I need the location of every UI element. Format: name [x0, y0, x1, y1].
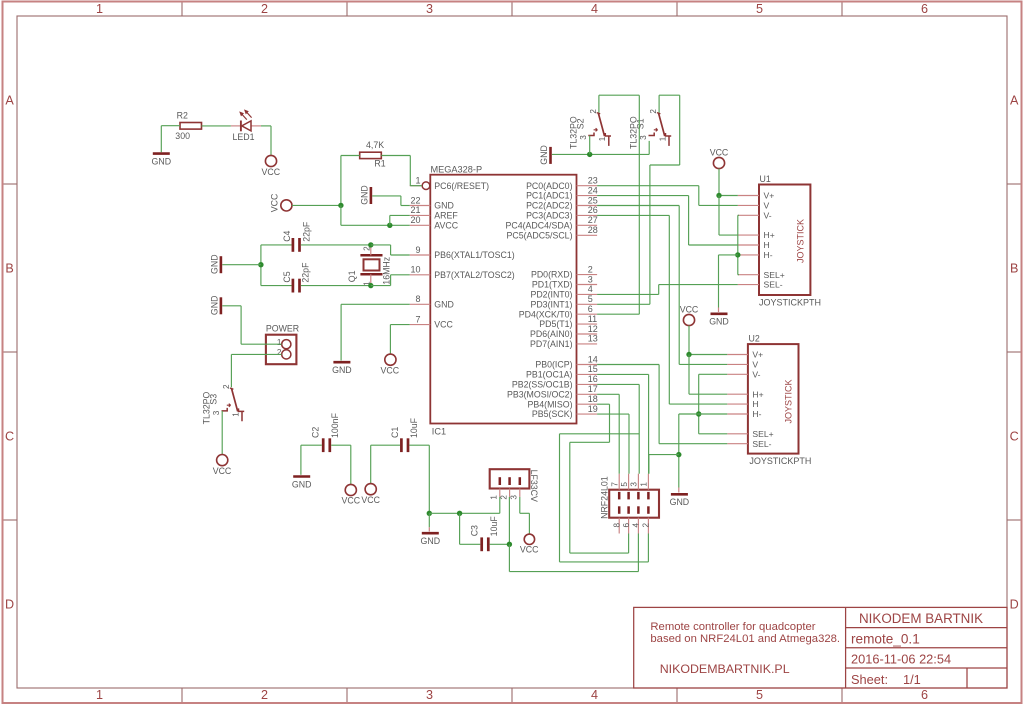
wire R2 left to GND corner [161, 126, 180, 153]
svg-text:PD7(AIN1): PD7(AIN1) [530, 339, 573, 349]
capacitor C2 value 100nF [330, 412, 340, 438]
svg-text:4: 4 [632, 523, 641, 528]
svg-text:S3: S3 [209, 394, 219, 405]
svg-text:B: B [1010, 261, 1018, 275]
svg-text:JOYSTICKPTH: JOYSTICKPTH [749, 456, 811, 466]
NRF pin 5 number [620, 482, 629, 487]
capacitor C1 value 10uF [409, 417, 419, 438]
U2 pin name H+ [752, 389, 763, 399]
U1 pin name V+ [764, 191, 775, 201]
S1 pin 2 label [649, 109, 658, 114]
svg-text:POWER: POWER [266, 324, 299, 334]
svg-text:PB6(XTAL1/TOSC1): PB6(XTAL1/TOSC1) [434, 250, 514, 260]
wire PB1 to NRF pin 1 [597, 374, 649, 473]
U1 pin name SEL- [764, 280, 783, 290]
IC1 pin 11 PD5(T1) [539, 314, 597, 329]
supply VCC for U1 [710, 147, 729, 168]
svg-text:GND: GND [434, 299, 454, 309]
svg-text:4: 4 [588, 284, 593, 294]
IC1 pin 27 PC4(ADC4/SDA) [506, 215, 598, 230]
svg-text:3: 3 [579, 135, 588, 140]
U1 pin name H- [764, 250, 773, 260]
crystal Q1 body [360, 255, 382, 274]
svg-text:13: 13 [588, 334, 598, 344]
LED LED1 [231, 109, 261, 131]
svg-text:2016-11-06 22:54: 2016-11-06 22:54 [851, 652, 951, 667]
svg-text:VCC: VCC [262, 167, 281, 177]
S3 pin 1 label [231, 412, 240, 417]
svg-text:5: 5 [588, 294, 593, 304]
svg-text:22pF: 22pF [301, 221, 311, 242]
ground symbol for R2 [152, 154, 172, 167]
NRF pin 4 stub bottom [637, 518, 639, 534]
switch S3 TL32PO [222, 388, 245, 421]
svg-text:22pF: 22pF [301, 262, 311, 283]
svg-text:1: 1 [490, 495, 499, 500]
POWER pin 2 number [277, 348, 282, 357]
crystal Q1 pin 1 label [362, 281, 371, 286]
svg-text:3: 3 [426, 688, 433, 702]
svg-text:2: 2 [261, 688, 268, 702]
svg-text:GND: GND [539, 145, 549, 165]
supply VCC center [270, 193, 292, 212]
svg-text:C4: C4 [282, 230, 292, 241]
svg-text:H+: H+ [752, 389, 763, 399]
connector POWER body [266, 335, 297, 365]
wire U1 VCC to V+ [719, 169, 738, 196]
ground symbol for U1 [709, 308, 729, 327]
svg-text:H: H [764, 240, 770, 250]
wire PB2 to NRF pin 3 [597, 384, 639, 473]
svg-text:3: 3 [510, 495, 519, 500]
svg-text:10uF: 10uF [409, 417, 419, 438]
wire 3V3 to NRF pin 4 [509, 534, 638, 572]
junction VCC-R1 [338, 203, 343, 208]
IC1 reference label [432, 427, 446, 437]
wire VCC circle to junction [292, 204, 341, 206]
ground symbol for IC1 pin 8 [332, 362, 352, 375]
svg-text:PB5(SCK): PB5(SCK) [532, 409, 573, 419]
switch S2 TL32PO [588, 113, 611, 146]
frame row letters right [1010, 93, 1019, 611]
wire IC1 pin 8 to GND [341, 304, 410, 360]
IC1 pin 17 PB3(MOSI/OC2) [507, 384, 598, 399]
wire switch GND rail [552, 153, 649, 155]
svg-text:PC4(ADC4/SDA): PC4(ADC4/SDA) [506, 220, 573, 230]
svg-text:LED1: LED1 [233, 132, 255, 142]
svg-text:VCC: VCC [342, 496, 361, 506]
svg-text:PD0(RXD): PD0(RXD) [531, 270, 573, 280]
wire crystal top to IC1 pin 9 [371, 245, 410, 255]
svg-text:V-: V- [752, 369, 760, 379]
title text website [660, 662, 790, 676]
title text project description line 1 [650, 621, 815, 633]
svg-text:Q1: Q1 [347, 270, 357, 282]
capacitor C5 plates [293, 279, 300, 293]
svg-text:11: 11 [588, 314, 597, 324]
IC1 pin 20 AVCC [410, 215, 459, 230]
svg-text:VCC: VCC [710, 147, 729, 157]
title text date [851, 652, 951, 667]
svg-text:SEL+: SEL+ [752, 429, 773, 439]
title text sheet [851, 672, 921, 687]
IC1 pin 4 PD2(INT0) [530, 284, 597, 299]
ground symbol for U2 [670, 488, 690, 508]
S2 refdes [576, 118, 586, 129]
svg-text:C5: C5 [282, 271, 292, 282]
wire U1 V- H- SEL+ tie [738, 215, 739, 274]
IC1 pin 23 PC0(ADC0) [526, 176, 598, 191]
frame row letters left [5, 93, 14, 611]
wire C5 to crystal bottom [301, 285, 371, 287]
svg-text:1: 1 [415, 176, 420, 186]
LF33CV pin 3 label [510, 495, 519, 500]
wire U2 H- to GND corner [679, 414, 728, 488]
svg-text:U2: U2 [749, 334, 760, 344]
capacitor C3 name [469, 525, 479, 536]
IC1 pin 24 PC1(ADC1) [526, 185, 598, 200]
NRF pin 6 stub bottom [628, 518, 630, 534]
svg-text:16: 16 [588, 374, 598, 384]
IC1 pin 8 GND [410, 294, 454, 309]
wire R1 right to IC1 pin 1 [381, 156, 422, 186]
crystal Q1 value 16MHz [381, 257, 391, 285]
svg-text:7: 7 [610, 482, 619, 487]
svg-text:PC2(ADC2): PC2(ADC2) [526, 201, 573, 211]
wire GND stub down [428, 513, 430, 527]
wire R2 to LED1 [202, 125, 231, 127]
svg-text:3: 3 [212, 410, 221, 415]
svg-text:3: 3 [588, 274, 593, 284]
junction U1 H- [735, 252, 740, 257]
svg-text:1: 1 [96, 688, 103, 702]
wire U2 VCC to V+ [689, 326, 727, 355]
wire GND rail [429, 497, 500, 513]
wire S1 pin 3 stub [648, 141, 650, 155]
svg-text:remote_0.1: remote_0.1 [851, 631, 920, 646]
connector POWER label [266, 324, 299, 334]
svg-text:NIKODEM BARTNIK: NIKODEM BARTNIK [859, 611, 983, 626]
svg-text:1: 1 [598, 136, 607, 141]
svg-text:JOYSTICK: JOYSTICK [783, 379, 793, 423]
frame column numbers bottom [96, 688, 928, 702]
wire S3 pin 3 to VCC [221, 411, 223, 455]
svg-text:GND: GND [292, 479, 312, 489]
svg-text:2: 2 [222, 384, 231, 389]
svg-text:8: 8 [415, 294, 420, 304]
capacitor C4 value 22pF [301, 221, 311, 242]
junction U2 GND node [676, 452, 681, 457]
svg-text:1: 1 [277, 338, 282, 347]
svg-text:S1: S1 [636, 118, 646, 129]
IC1 pin 16 PB2(SS/OC1B) [512, 374, 598, 389]
svg-text:PB4(MISO): PB4(MISO) [528, 399, 573, 409]
junction C3-3V3 [507, 542, 512, 547]
NRF pin 1 stub top [647, 474, 649, 490]
wire C4-C5 left common [261, 245, 292, 286]
junction crystal pin1 [368, 283, 373, 288]
junction U2 H- [696, 411, 701, 416]
svg-text:GND: GND [209, 296, 219, 316]
svg-text:Remote controller for quadcopt: Remote controller for quadcopter [650, 621, 815, 633]
svg-text:16MHz: 16MHz [381, 257, 391, 285]
svg-text:JOYSTICKPTH: JOYSTICKPTH [759, 298, 821, 308]
capacitor C3 plates [482, 537, 489, 551]
IC1 pin 18 PB4(MISO) [528, 394, 598, 409]
ground symbol for C2 [292, 477, 312, 490]
svg-text:GND: GND [152, 156, 172, 166]
wire VCC down to AVCC row [341, 205, 410, 225]
svg-text:PD5(T1): PD5(T1) [539, 319, 572, 329]
svg-text:VCC: VCC [270, 193, 280, 212]
S2 pin 2 label [589, 109, 598, 114]
capacitor C2 plates [323, 438, 330, 452]
svg-text:LF33CV: LF33CV [529, 470, 539, 502]
wire U1 SEL- to PD2 [597, 285, 738, 295]
title text project description line 2 [650, 633, 840, 645]
junction S2 pin3 on rail [587, 152, 592, 157]
wire AREF branch [390, 215, 410, 225]
svg-text:18: 18 [588, 394, 598, 404]
svg-text:VCC: VCC [680, 304, 699, 314]
svg-text:PC1(ADC1): PC1(ADC1) [526, 191, 573, 201]
svg-text:PC0(ADC0): PC0(ADC0) [526, 181, 573, 191]
svg-text:2: 2 [642, 523, 651, 528]
switch S1 TL32PO [649, 113, 672, 146]
wire GND to caps [222, 264, 261, 266]
supply VCC for C2 [342, 484, 361, 505]
svg-text:PD2(INT0): PD2(INT0) [530, 290, 572, 300]
wire C3 right to LF pin 2 [490, 497, 510, 544]
wire PB0 to U2 SEL- [597, 365, 727, 444]
ground symbol for C4 C5 [209, 254, 221, 274]
svg-text:PD3(INT1): PD3(INT1) [530, 299, 572, 309]
svg-text:V+: V+ [764, 191, 775, 201]
svg-text:V+: V+ [752, 350, 763, 360]
S1 pin 1 label [658, 136, 667, 141]
crystal Q1 pin 2 label [362, 246, 371, 251]
wire LF pin 3 to VCC [520, 497, 530, 534]
wire C2 left to GND [301, 445, 322, 475]
svg-text:GND: GND [332, 365, 352, 375]
wire IC1 pin 7 to VCC [390, 325, 409, 354]
svg-text:1: 1 [640, 482, 649, 487]
svg-text:21: 21 [410, 205, 420, 215]
wire PC1 to U1 H [597, 196, 738, 245]
svg-text:A: A [1010, 93, 1019, 107]
U1 value JOYSTICKPTH [759, 298, 821, 308]
svg-text:20: 20 [410, 215, 420, 225]
svg-text:H-: H- [752, 409, 761, 419]
resistor R2 value 300 [175, 131, 190, 141]
wire GND node to NRF pin 1 column [649, 455, 679, 474]
svg-text:D: D [1010, 597, 1019, 611]
IC1 pin 21 AREF [410, 205, 459, 220]
NRF pin 3 number [630, 482, 639, 487]
IC1 pin 25 PC2(ADC2) [526, 195, 598, 210]
svg-text:AREF: AREF [434, 211, 458, 221]
POWER pin 1 number [277, 338, 282, 347]
svg-text:5: 5 [756, 688, 763, 702]
wire C1 right down to GND rail [409, 445, 429, 513]
svg-text:C: C [5, 429, 14, 443]
S2 pin 3 label [579, 135, 588, 140]
capacitor C3 value 10uF [489, 516, 499, 537]
wire PB3 to NRF pin 7 [597, 394, 619, 473]
svg-text:6: 6 [622, 523, 631, 528]
svg-text:H-: H- [764, 250, 773, 260]
S3 pin 2 label [222, 384, 231, 389]
junction U2 V+ [686, 352, 691, 357]
svg-text:GND: GND [359, 185, 369, 205]
svg-text:C1: C1 [390, 427, 400, 438]
svg-text:C: C [1010, 429, 1019, 443]
svg-text:V: V [764, 201, 770, 211]
svg-text:PB7(XTAL2/TOSC2): PB7(XTAL2/TOSC2) [434, 270, 514, 280]
svg-text:6: 6 [588, 304, 593, 314]
U2 pin name V+ [752, 350, 763, 360]
LF33CV name label [529, 470, 539, 502]
svg-text:PC6(/RESET): PC6(/RESET) [434, 181, 489, 191]
svg-text:7: 7 [415, 314, 420, 324]
svg-text:10uF: 10uF [489, 516, 499, 537]
svg-text:VCC: VCC [361, 495, 380, 505]
NRF pin 5 stub top [628, 474, 630, 490]
LF33CV pin 1 label [490, 495, 499, 500]
wire PB4 to NRF pin 6 [570, 404, 629, 553]
IC1 pin 22 GND [410, 195, 454, 210]
IC1 pin 14 PB0(ICP) [535, 354, 597, 369]
svg-text:VCC: VCC [213, 466, 232, 476]
ground symbol bottom [421, 527, 441, 546]
junction crystal pin2 [368, 242, 373, 247]
U2 pin name SEL- [752, 439, 771, 449]
supply VCC for U2 [680, 304, 699, 325]
NRF pin 1 number [640, 482, 649, 487]
wire C4 to crystal top [301, 244, 371, 246]
svg-text:23: 23 [588, 176, 598, 186]
svg-text:3: 3 [630, 482, 639, 487]
IC1 pin 26 PC3(ADC3) [526, 205, 598, 220]
svg-text:9: 9 [415, 245, 420, 255]
svg-text:C2: C2 [311, 427, 321, 438]
supply VCC for IC1 pin 7 [381, 354, 400, 375]
regulator U3 LF33CV body [490, 469, 530, 497]
IC1 pin 3 PD1(TXD) [532, 274, 597, 289]
capacitor C1 name [390, 427, 400, 438]
svg-text:NRF24L01: NRF24L01 [600, 476, 610, 519]
U2 pin name V- [752, 369, 760, 379]
crystal Q1 pin 2 stub [370, 245, 372, 255]
svg-text:GND: GND [434, 201, 454, 211]
S3 name TL32PO [202, 391, 212, 424]
wire GND to POWER pin 1 [222, 306, 281, 344]
IC1 pin 10 PB7(XTAL2/TOSC2) [410, 265, 515, 280]
capacitor C1 plates [401, 438, 408, 452]
wire S1 pin 2 up [658, 95, 660, 112]
svg-text:VCC: VCC [381, 365, 400, 375]
svg-text:SEL-: SEL- [752, 439, 771, 449]
svg-text:V: V [752, 360, 758, 370]
S2 name TL32PO [568, 116, 578, 149]
wire GND to IC1 pin 22 [372, 196, 410, 206]
svg-text:C3: C3 [469, 525, 479, 536]
IC1 pin 7 VCC [410, 314, 454, 329]
supply VCC for LF33CV [520, 534, 539, 555]
NRF pin 7 number [610, 482, 619, 487]
svg-text:1: 1 [658, 136, 667, 141]
IC1 pin 12 PD6(AIN0) [530, 324, 598, 339]
ground symbol for IC1 pin 22 [359, 185, 371, 205]
U1 refdes [760, 174, 771, 184]
joystick U2 body [727, 344, 798, 454]
S1 refdes [636, 118, 646, 129]
svg-text:5: 5 [756, 2, 763, 16]
svg-text:19: 19 [588, 404, 598, 414]
supply VCC for C1 [361, 484, 380, 505]
svg-text:PB0(ICP): PB0(ICP) [535, 360, 572, 370]
svg-text:5: 5 [620, 482, 629, 487]
svg-text:2: 2 [588, 264, 593, 274]
resistor R2 name [177, 111, 188, 121]
svg-text:17: 17 [588, 384, 598, 394]
IC1 pin 1 PC6(/RESET) [410, 176, 489, 191]
resistor R2 body [180, 123, 202, 130]
svg-text:JOYSTICK: JOYSTICK [795, 219, 805, 263]
svg-text:2: 2 [589, 109, 598, 114]
NRF pin 7 stub top [618, 474, 620, 490]
supply VCC for S3 [213, 455, 232, 476]
U2 refdes [749, 334, 760, 344]
U2 pin name SEL+ [752, 429, 773, 439]
junction GND rail at C1 [427, 511, 432, 516]
wire NRF3 branch to NRF pin 2 [560, 434, 649, 562]
ground symbol above POWER [209, 296, 221, 316]
svg-text:1: 1 [96, 2, 103, 16]
capacitor C5 name [282, 271, 292, 282]
wire PC0 to U1 V [597, 186, 738, 206]
ground symbol for switches [539, 145, 551, 165]
svg-text:14: 14 [588, 354, 598, 364]
svg-text:PB3(MOSI/OC2): PB3(MOSI/OC2) [507, 389, 573, 399]
svg-text:26: 26 [588, 205, 598, 215]
svg-text:GND: GND [421, 536, 441, 546]
svg-text:28: 28 [588, 225, 598, 235]
junction AVCC-AREF [387, 223, 392, 228]
U1 JOYSTICK label [795, 219, 805, 263]
svg-text:MEGA328-P: MEGA328-P [431, 164, 483, 174]
svg-text:2: 2 [649, 109, 658, 114]
NRF24L01 name label [600, 476, 610, 519]
svg-text:GND: GND [209, 254, 219, 274]
svg-text:6: 6 [921, 688, 928, 702]
NRF pin 6 number [622, 523, 631, 528]
svg-text:300: 300 [175, 131, 190, 141]
wire U2 VCC to H+ [689, 355, 727, 395]
capacitor C4 name [282, 230, 292, 241]
wire S2 pin 3 stub [589, 136, 591, 155]
svg-text:B: B [5, 261, 13, 275]
capacitor C4 plates [293, 238, 300, 252]
wire PC3 to U2 H [597, 215, 727, 404]
resistor R1 body [360, 152, 382, 158]
svg-text:H+: H+ [764, 230, 775, 240]
wire C2 right to VCC [331, 445, 351, 484]
svg-text:S2: S2 [576, 118, 586, 129]
IC1 pin 2 PD0(RXD) [531, 264, 597, 279]
LF33CV pin 2 label [500, 495, 509, 500]
junction U1 V+ [716, 193, 721, 198]
